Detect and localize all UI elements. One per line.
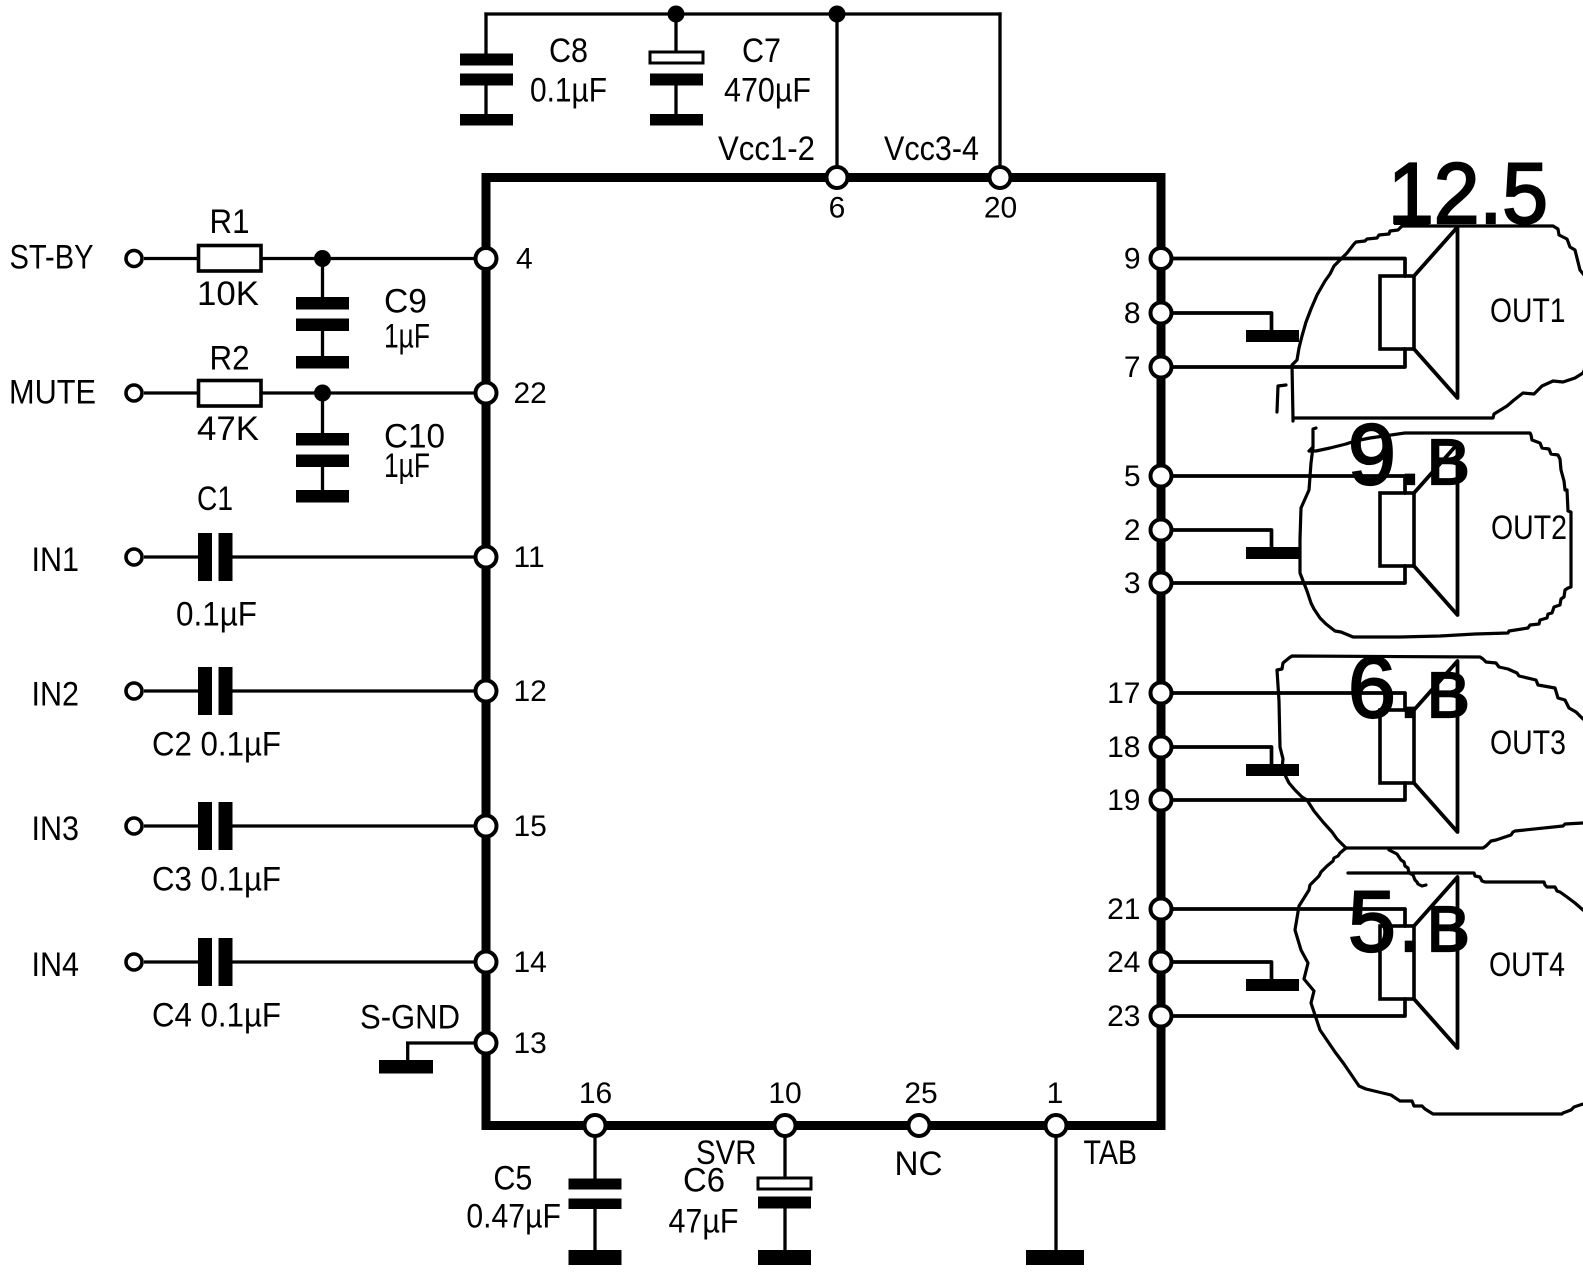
- svg-text:.: .: [1398, 407, 1422, 503]
- node pin6 junction: [829, 6, 846, 23]
- svg-text:8: 8: [1124, 297, 1141, 330]
- IC pin 11: [476, 541, 545, 574]
- wire C5 ground lead: [593, 1209, 596, 1250]
- svg-text:OUT2: OUT2: [1491, 509, 1567, 547]
- node A R1-C9 junction: [314, 250, 331, 267]
- svg-text:0.1µF: 0.1µF: [530, 72, 607, 110]
- svg-text:C3 0.1µF: C3 0.1µF: [152, 861, 281, 899]
- ground S-GND: [379, 1060, 433, 1074]
- IC pin 4: [476, 242, 533, 275]
- speaker OUT1: [1380, 227, 1458, 398]
- wire Vcc1-2 rail to pin 6: [835, 14, 838, 172]
- svg-text:IN4: IN4: [32, 946, 80, 984]
- wire C8 top lead: [484, 12, 487, 54]
- capacitor C6: [669, 1162, 812, 1241]
- speaker OUT4: [1380, 877, 1458, 1048]
- svg-text:22: 22: [514, 377, 547, 410]
- pin label S-GND: [360, 999, 460, 1037]
- svg-text:C5: C5: [493, 1160, 532, 1198]
- wire R1 to pin 4: [261, 257, 477, 260]
- wire pin 23 to OUT4-: [1172, 999, 1405, 1016]
- pin label SVR: [696, 1134, 757, 1172]
- svg-text:S-GND: S-GND: [360, 999, 460, 1037]
- capacitor C10: [296, 418, 445, 486]
- enclosure bubble OUT1: [1277, 226, 1583, 421]
- wire pin 24 to ground: [1172, 962, 1272, 979]
- port MUTE: [9, 374, 142, 412]
- svg-text:10K: 10K: [197, 275, 259, 313]
- ground C6: [758, 1250, 811, 1265]
- ground pin 18: [1246, 764, 1299, 776]
- wire pin 3 to OUT2-: [1172, 566, 1405, 583]
- capacitor C9: [296, 283, 430, 356]
- capacitor C5: [466, 1160, 621, 1236]
- enclosure bubble OUT3: [1277, 656, 1583, 886]
- IC pin 12: [476, 675, 547, 708]
- svg-text:15: 15: [514, 810, 547, 843]
- node C7 junction: [668, 6, 685, 23]
- svg-text:IN3: IN3: [32, 810, 80, 848]
- svg-text:20: 20: [984, 192, 1017, 225]
- node B R2-C10 junction: [314, 385, 331, 402]
- wire IN3 to C3: [144, 824, 198, 827]
- wire C8 bottom lead: [484, 85, 487, 114]
- ground pin 8: [1246, 330, 1299, 342]
- IC pin 6: [827, 167, 848, 225]
- capacitor C8: [460, 32, 607, 110]
- annotation 12.5 V: [1388, 146, 1548, 242]
- svg-text:Vcc3-4: Vcc3-4: [884, 130, 979, 168]
- IC pin 21: [1107, 893, 1171, 926]
- svg-text:1µF: 1µF: [384, 447, 430, 485]
- ground C9: [296, 356, 349, 369]
- svg-text:5: 5: [1348, 874, 1396, 970]
- svg-text:19: 19: [1107, 784, 1140, 817]
- svg-text:C2 0.1µF: C2 0.1µF: [152, 726, 281, 764]
- annotation 6.8 V: [1348, 640, 1470, 736]
- svg-text:TAB: TAB: [1084, 1134, 1138, 1172]
- capacitor C7: [650, 32, 811, 110]
- svg-text:C7: C7: [742, 32, 781, 70]
- ground pin 2: [1246, 547, 1299, 559]
- resistor R2: [197, 340, 261, 449]
- svg-text:11: 11: [514, 541, 545, 574]
- wire IN4 to C4: [144, 960, 198, 963]
- IC pin 22: [476, 377, 547, 410]
- pin label NC: [895, 1145, 943, 1183]
- svg-text:10: 10: [768, 1077, 801, 1110]
- svg-text:7: 7: [1124, 351, 1141, 384]
- svg-text:R1: R1: [210, 203, 250, 241]
- IC pin 14: [476, 946, 547, 979]
- capacitor C1: [176, 480, 257, 634]
- label OUT4: [1489, 946, 1565, 984]
- svg-text:C9: C9: [384, 283, 427, 321]
- svg-text:IN2: IN2: [32, 676, 80, 714]
- wire MUTE to R2: [144, 391, 199, 394]
- IC pin 15: [476, 810, 547, 843]
- port IN3: [32, 810, 143, 848]
- svg-text:3: 3: [1124, 567, 1141, 600]
- svg-text:C8: C8: [549, 32, 588, 70]
- wire Vcc top rail: [484, 12, 1001, 15]
- wire C6 lead: [783, 1136, 786, 1178]
- IC pin 8: [1124, 297, 1172, 330]
- svg-text:0.1µF: 0.1µF: [176, 596, 257, 634]
- svg-text:R2: R2: [210, 340, 250, 378]
- svg-text:В: В: [1427, 893, 1470, 965]
- svg-text:В: В: [1427, 426, 1470, 498]
- svg-text:0.47µF: 0.47µF: [466, 1198, 561, 1236]
- wire C10 top lead: [321, 393, 324, 433]
- enclosure bubble OUT2: [1300, 428, 1571, 637]
- svg-text:9: 9: [1124, 242, 1141, 275]
- capacitor C3: [152, 802, 281, 899]
- ground C7: [650, 114, 703, 126]
- svg-text:23: 23: [1107, 1000, 1140, 1033]
- wire pin 19 to OUT3-: [1172, 783, 1405, 800]
- IC pin 7: [1124, 351, 1172, 384]
- port IN1: [32, 541, 143, 579]
- wire C2 to IC: [233, 689, 478, 692]
- wire C4 to IC: [233, 960, 478, 963]
- svg-text:1: 1: [1047, 1077, 1064, 1110]
- wire TAB ground lead: [1054, 1136, 1057, 1250]
- IC pin 16: [579, 1077, 612, 1136]
- speaker OUT3: [1380, 661, 1458, 832]
- wire C10 bottom lead: [321, 467, 324, 490]
- svg-text:OUT3: OUT3: [1490, 724, 1566, 762]
- wire C6 ground lead: [783, 1209, 786, 1251]
- ground TAB: [1026, 1250, 1084, 1265]
- svg-text:6: 6: [829, 192, 846, 225]
- svg-text:NC: NC: [895, 1145, 943, 1183]
- svg-text:OUT4: OUT4: [1489, 946, 1565, 984]
- svg-text:.: .: [1398, 874, 1422, 970]
- IC pin 1: [1046, 1077, 1067, 1136]
- svg-text:25: 25: [904, 1077, 937, 1110]
- svg-text:24: 24: [1107, 946, 1140, 979]
- svg-text:47K: 47K: [197, 410, 259, 448]
- svg-text:OUT1: OUT1: [1490, 292, 1566, 330]
- resistor R1: [197, 203, 261, 313]
- label OUT1: [1490, 292, 1566, 330]
- wire pin 9 to OUT1+: [1172, 259, 1405, 277]
- wire C7 top lead: [674, 14, 677, 54]
- svg-text:17: 17: [1107, 677, 1140, 710]
- annotation 9.8 V: [1348, 407, 1470, 503]
- svg-text:9: 9: [1348, 407, 1396, 503]
- svg-text:В: В: [1427, 659, 1470, 731]
- enclosure bubble OUT4: [1295, 848, 1583, 1114]
- IC pin 3: [1124, 567, 1172, 600]
- svg-text:ST-BY: ST-BY: [10, 239, 94, 277]
- svg-text:4: 4: [516, 242, 533, 275]
- wire pin 2 to ground: [1172, 530, 1272, 547]
- wire C1 to IC: [233, 555, 478, 558]
- wire pin 17 to OUT3+: [1172, 693, 1405, 710]
- wire C5 lead: [593, 1136, 596, 1179]
- svg-text:.: .: [1398, 640, 1422, 736]
- wire R2 to pin 22: [261, 391, 477, 394]
- ground C8: [460, 114, 513, 126]
- label OUT2: [1491, 509, 1567, 547]
- capacitor C4: [152, 938, 281, 1035]
- capacitor C2: [152, 667, 281, 764]
- IC pin 9: [1124, 242, 1172, 275]
- pin label Vcc1-2: [718, 130, 815, 168]
- IC pin 13: [476, 1027, 547, 1060]
- wire C9 bottom lead: [321, 331, 324, 356]
- IC pin 23: [1107, 1000, 1171, 1033]
- svg-text:1µF: 1µF: [384, 318, 430, 356]
- IC pin 20: [984, 167, 1017, 225]
- svg-text:Vcc1-2: Vcc1-2: [718, 130, 815, 168]
- svg-text:IN1: IN1: [32, 541, 80, 579]
- label OUT3: [1490, 724, 1566, 762]
- svg-text:14: 14: [514, 946, 547, 979]
- wire pin 5 to OUT2+: [1172, 476, 1405, 493]
- svg-text:13: 13: [514, 1027, 547, 1060]
- IC pin 17: [1107, 677, 1171, 710]
- port IN2: [32, 676, 143, 714]
- svg-text:470µF: 470µF: [724, 72, 811, 110]
- wire pin 18 to ground: [1172, 747, 1272, 764]
- annotation 5.8 V: [1348, 874, 1470, 970]
- ground C5: [569, 1250, 622, 1265]
- wire pin 13 to S-GND: [406, 1043, 475, 1060]
- wire C9 top lead: [321, 259, 324, 298]
- svg-text:C1: C1: [197, 480, 233, 518]
- port IN4: [32, 946, 143, 984]
- svg-text:MUTE: MUTE: [9, 374, 96, 412]
- wire pin 7 to OUT1-: [1172, 349, 1405, 367]
- IC pin 19: [1107, 784, 1171, 817]
- IC pin 5: [1124, 460, 1172, 493]
- ground C10: [296, 490, 349, 503]
- wire IN1 to C1: [144, 555, 198, 558]
- svg-text:18: 18: [1107, 731, 1140, 764]
- svg-text:16: 16: [579, 1077, 612, 1110]
- svg-text:47µF: 47µF: [669, 1203, 739, 1241]
- svg-text:2: 2: [1124, 514, 1141, 547]
- port ST-BY: [10, 239, 143, 277]
- wire IN2 to C2: [144, 689, 198, 692]
- IC pin 2: [1124, 514, 1172, 547]
- ground pin 24: [1246, 979, 1299, 991]
- wire pin 8 to ground: [1172, 313, 1272, 330]
- wire C3 to IC: [233, 824, 478, 827]
- wire pin 21 to OUT4+: [1172, 909, 1405, 926]
- pin label TAB: [1084, 1134, 1138, 1172]
- speaker OUT2: [1380, 444, 1458, 615]
- IC pin 18: [1107, 731, 1171, 764]
- svg-text:21: 21: [1107, 893, 1140, 926]
- pin label Vcc3-4: [884, 130, 979, 168]
- svg-text:6: 6: [1348, 640, 1396, 736]
- svg-text:C4 0.1µF: C4 0.1µF: [152, 997, 281, 1035]
- op-amp U1 quad power amplifier IC body: [486, 178, 1161, 1126]
- IC pin 25: [904, 1077, 937, 1136]
- svg-text:C6: C6: [683, 1162, 725, 1200]
- svg-text:12: 12: [514, 675, 547, 708]
- IC pin 24: [1107, 946, 1171, 979]
- IC pin 10: [768, 1077, 801, 1136]
- wire ST-BY to R1: [144, 257, 199, 260]
- svg-text:5: 5: [1124, 460, 1141, 493]
- wire C7 bottom lead: [674, 85, 677, 114]
- wire Vcc3-4 rail to pin 20: [998, 12, 1001, 172]
